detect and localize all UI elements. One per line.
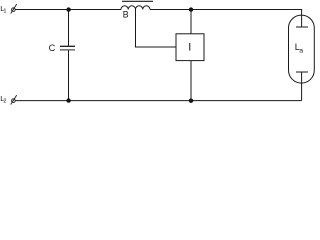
lamp La top electrode <box>296 26 308 28</box>
label L2 <box>0 94 6 104</box>
capacitor C <box>60 46 75 50</box>
wire: lamp bottom lead <box>301 72 303 101</box>
wire: igniter bottom lead <box>190 61 192 101</box>
node: junction top of capacitor branch <box>66 7 70 11</box>
label L1 <box>0 4 6 14</box>
wire: lamp top lead <box>301 10 303 28</box>
node: junction top of igniter branch <box>189 7 193 11</box>
node: junction bottom of capacitor branch <box>66 98 70 102</box>
lamp La envelope <box>289 15 315 83</box>
svg-text:1: 1 <box>3 8 6 14</box>
wire: capacitor bottom lead <box>68 50 70 100</box>
lamp La bottom electrode <box>296 71 308 73</box>
label La <box>295 42 304 54</box>
wire top: inductor B to lamp <box>150 9 302 11</box>
svg-text:2: 2 <box>3 99 6 105</box>
svg-text:a: a <box>299 47 303 54</box>
wire: inductor tap down <box>135 10 137 48</box>
wire top: terminal L1 to inductor B <box>15 9 121 11</box>
svg-text:C: C <box>49 43 56 53</box>
terminal L1 <box>11 4 17 13</box>
wire: igniter top lead <box>190 10 192 34</box>
wire: capacitor top lead <box>68 10 70 46</box>
svg-text:B: B <box>123 9 129 19</box>
wire bottom: terminal L2 to lamp <box>15 100 302 102</box>
wire: tap to igniter left side <box>135 46 176 48</box>
svg-text:I: I <box>188 41 191 53</box>
igniter U1 box I <box>176 34 204 61</box>
inductor B <box>121 1 153 9</box>
node: junction bottom of igniter branch <box>189 99 193 103</box>
terminal L2 <box>11 95 17 104</box>
